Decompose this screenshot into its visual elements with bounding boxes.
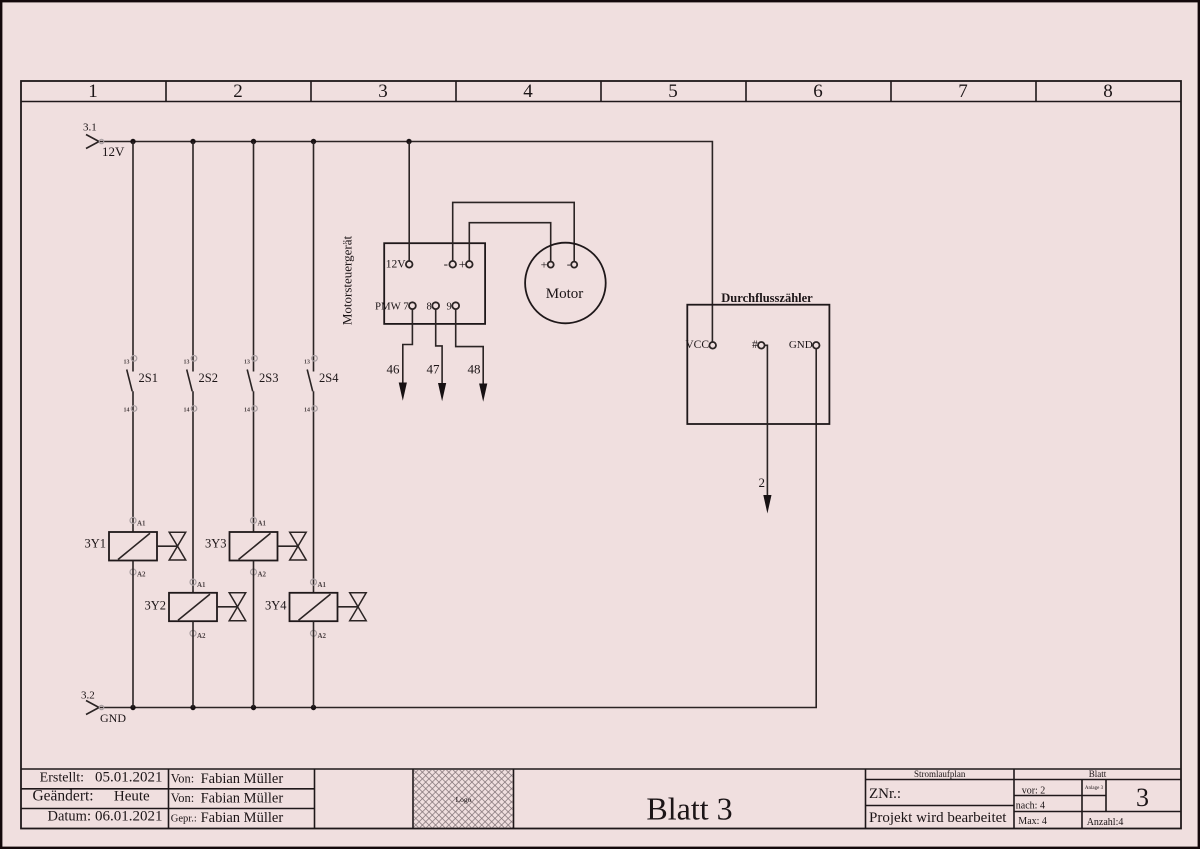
svg-text:Erstellt:: Erstellt: [40,771,84,786]
svg-text:3.2: 3.2 [81,690,95,702]
svg-text:Heute: Heute [114,789,150,805]
svg-text:A1: A1 [318,581,327,589]
svg-text:48: 48 [468,362,481,377]
svg-text:Projekt wird bearbeitet: Projekt wird bearbeitet [869,810,1007,826]
svg-text:13: 13 [184,360,190,366]
svg-text:vor: 2: vor: 2 [1022,785,1046,796]
svg-text:14: 14 [304,408,310,414]
svg-text:6: 6 [813,81,823,102]
svg-text:Fabian Müller: Fabian Müller [201,791,284,807]
svg-text:-: - [444,256,448,271]
svg-text:Stromlaufplan: Stromlaufplan [914,769,966,779]
svg-text:3Y3: 3Y3 [205,537,227,551]
svg-text:Anlage 3: Anlage 3 [1085,786,1104,791]
svg-text:nach: 4: nach: 4 [1016,801,1045,812]
svg-text:Durchflusszähler: Durchflusszähler [721,291,813,305]
svg-text:-: - [567,257,571,271]
svg-text:Datum:: Datum: [48,809,92,825]
svg-text:Blatt: Blatt [1089,769,1107,779]
svg-text:Fabian Müller: Fabian Müller [201,771,284,787]
svg-text:2S3: 2S3 [259,371,278,385]
svg-text:Max: 4: Max: 4 [1018,816,1047,827]
svg-text:Fabian Müller: Fabian Müller [201,810,284,826]
svg-text:2: 2 [759,475,766,490]
svg-text:Anzahl:4: Anzahl:4 [1087,817,1124,828]
svg-text:2S2: 2S2 [199,371,218,385]
svg-text:PMW 7: PMW 7 [375,300,409,312]
svg-text:A2: A2 [197,632,206,640]
svg-text:A2: A2 [318,632,327,640]
svg-text:2S1: 2S1 [139,371,158,385]
svg-text:Motor: Motor [546,286,584,302]
svg-text:VCC: VCC [685,339,709,351]
svg-text:14: 14 [124,408,130,414]
svg-text:3Y4: 3Y4 [265,599,287,613]
svg-text:Logo: Logo [456,795,472,804]
svg-text:2: 2 [233,81,243,102]
svg-text:Von:: Von: [171,772,194,786]
svg-text:+: + [459,256,466,271]
svg-text:47: 47 [427,362,441,377]
svg-text:05.01.2021: 05.01.2021 [95,770,163,786]
svg-text:12V: 12V [102,144,125,159]
svg-text:3: 3 [1136,783,1149,812]
svg-text:12V: 12V [386,259,407,271]
svg-text:13: 13 [304,360,310,366]
svg-text:A2: A2 [137,571,146,579]
svg-text:46: 46 [387,362,401,377]
svg-text:GND: GND [789,339,813,351]
svg-text:Geändert:: Geändert: [32,788,93,805]
svg-text:Motorsteuergerät: Motorsteuergerät [340,235,355,325]
svg-text:+: + [541,257,548,271]
svg-text:13: 13 [244,360,250,366]
svg-text:3Y1: 3Y1 [84,537,106,551]
svg-text:14: 14 [244,408,250,414]
svg-text:3Y2: 3Y2 [144,599,166,613]
svg-text:5: 5 [668,81,678,102]
svg-text:14: 14 [184,408,190,414]
svg-text:A2: A2 [258,571,267,579]
svg-text:2S4: 2S4 [319,371,339,385]
svg-text:3: 3 [378,81,388,102]
svg-text:13: 13 [124,360,130,366]
svg-text:7: 7 [958,81,968,102]
svg-text:GND: GND [100,711,126,725]
svg-text:Gepr.:: Gepr.: [171,814,197,825]
svg-text:8: 8 [1103,81,1113,102]
svg-text:06.01.2021: 06.01.2021 [95,809,163,825]
svg-text:9: 9 [447,302,452,313]
svg-text:Blatt 3: Blatt 3 [646,790,732,826]
svg-text:A1: A1 [197,581,206,589]
svg-text:3.1: 3.1 [83,122,97,134]
svg-text:Von:: Von: [171,791,194,805]
svg-text:A1: A1 [258,519,267,527]
svg-text:8: 8 [427,302,432,313]
svg-text:4: 4 [523,81,533,102]
svg-text:#: # [752,339,758,351]
svg-text:1: 1 [88,81,98,102]
svg-text:ZNr.:: ZNr.: [869,786,901,802]
svg-text:A1: A1 [137,519,146,527]
